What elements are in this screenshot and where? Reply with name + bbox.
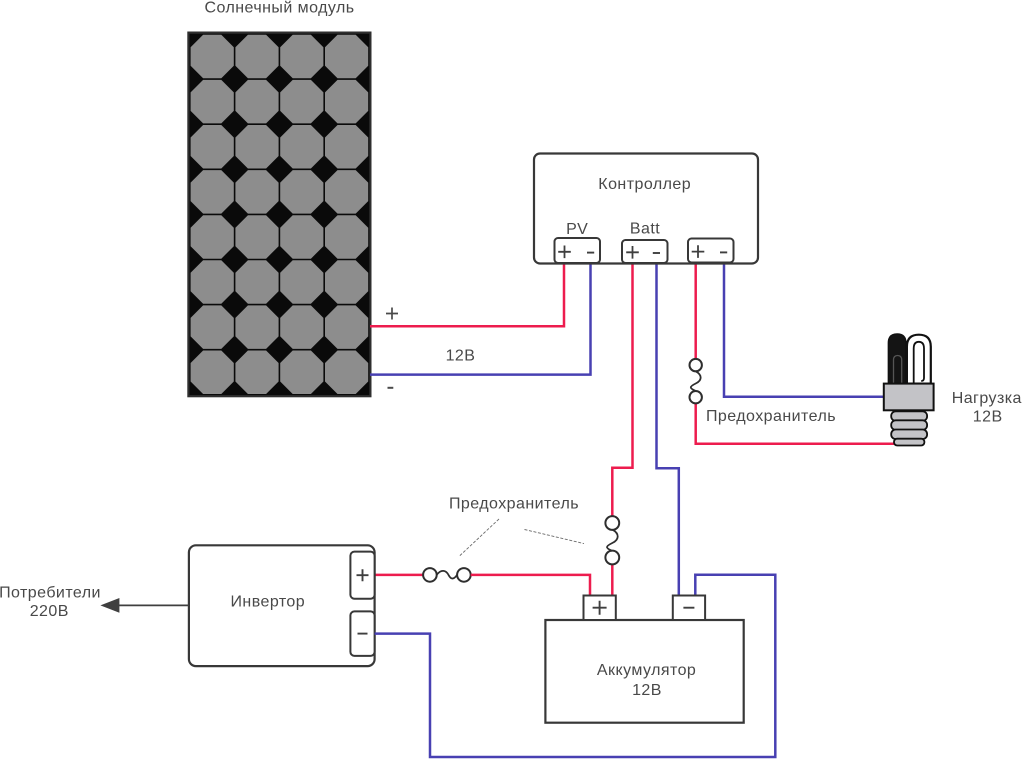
wire inverter+ red (inverter to fuse) xyxy=(375,574,424,577)
controller load terminal block xyxy=(688,239,734,263)
svg-text:Солнечный модуль: Солнечный модуль xyxy=(204,0,354,17)
wire Load- blue (controller to lamp) xyxy=(724,263,885,397)
svg-text:Потребители: Потребители xyxy=(0,584,101,601)
svg-text:Предохранитель: Предохранитель xyxy=(706,408,836,425)
lamp EL1 screw ridge 2 xyxy=(891,420,927,430)
lamp EL1 left tube xyxy=(888,334,906,384)
wire negative loop blue (inverter- to battery-) xyxy=(375,575,776,757)
svg-text:220В: 220В xyxy=(30,603,69,620)
controller U1 box xyxy=(534,154,758,264)
solar module cells xyxy=(191,35,369,394)
lamp EL1 screw ridge 3 xyxy=(891,430,927,440)
svg-text:Аккумулятор: Аккумулятор xyxy=(597,662,696,679)
fuse F2 (battery line, vertical) xyxy=(605,516,619,564)
lamp EL1 screw ridge 1 xyxy=(891,411,927,421)
lamp EL1 screw tip xyxy=(894,439,924,446)
wire inverter+ red (fuse to battery+) xyxy=(471,575,590,596)
svg-text:Инвертор: Инвертор xyxy=(230,593,305,610)
lamp EL1 right tube xyxy=(907,335,931,384)
controller Batt terminal block xyxy=(622,240,668,263)
inverter box xyxy=(189,545,375,666)
svg-text:Предохранитель: Предохранитель xyxy=(449,495,579,512)
svg-text:12В: 12В xyxy=(632,682,662,699)
controller PV terminal block xyxy=(555,238,601,263)
inverter + terminal xyxy=(350,552,374,599)
solar module frame xyxy=(188,33,370,397)
wire Batt- blue (controller to battery) xyxy=(657,263,679,596)
battery + terminal xyxy=(584,596,616,621)
inverter - terminal xyxy=(350,611,374,656)
wire PV- blue (panel to controller) xyxy=(370,263,591,375)
leader line to vertical fuse xyxy=(525,530,585,544)
wire Batt+ red (controller to fuse to battery) xyxy=(612,263,632,516)
wire Load+ red (fuse to lamp) xyxy=(696,404,896,444)
svg-text:Нагрузка: Нагрузка xyxy=(952,390,1022,407)
svg-text:Контроллер: Контроллер xyxy=(598,176,691,193)
svg-text:12В: 12В xyxy=(446,348,476,365)
wire Load+ red (controller to fuse) xyxy=(694,263,697,359)
wire PV+ red (panel to controller) xyxy=(370,263,564,326)
svg-text:Batt: Batt xyxy=(630,221,660,238)
svg-text:PV: PV xyxy=(566,221,588,238)
leader line to horizontal fuse xyxy=(460,519,499,556)
battery box xyxy=(545,620,743,723)
battery - terminal xyxy=(673,596,705,621)
lamp EL1 base housing xyxy=(884,384,934,411)
fuse F1 (load line, vertical) xyxy=(690,359,702,404)
label - (panel negative) xyxy=(388,387,394,389)
label + (panel positive) xyxy=(386,308,398,320)
svg-text:12В: 12В xyxy=(973,409,1003,426)
fuse F3 (inverter line, horizontal) xyxy=(423,568,471,582)
arrow to consumers xyxy=(117,604,189,606)
